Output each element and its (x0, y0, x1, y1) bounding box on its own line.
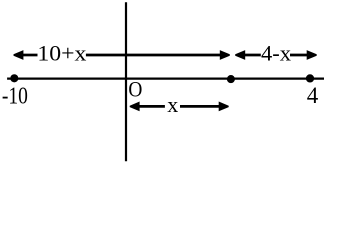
arrow 10+x left shaft (22, 54, 38, 57)
svg-text:x: x (167, 92, 178, 117)
arrow 4-x right shaft (290, 54, 308, 57)
arrow x left arrowhead (130, 102, 140, 112)
arrow x right arrowhead (219, 102, 229, 112)
arrow 4-x left shaft (244, 54, 261, 57)
svg-text:4: 4 (307, 83, 319, 108)
svg-text:4-x: 4-x (261, 41, 291, 66)
vertical axis (125, 2, 127, 161)
arrow 10+x right arrowhead (220, 50, 230, 60)
arrow 4-x left arrowhead (235, 50, 245, 60)
svg-text:O: O (128, 76, 142, 101)
point dot at 4 (306, 74, 314, 82)
point dot between O and 4 (227, 75, 235, 83)
svg-text:-10: -10 (2, 83, 28, 109)
number line (7, 77, 324, 79)
svg-text:10+x: 10+x (37, 41, 86, 66)
point dot at -10 (10, 74, 18, 82)
arrow 10+x left arrowhead (14, 50, 24, 60)
arrow x left shaft (138, 105, 165, 108)
arrow x right shaft (180, 105, 220, 108)
arrow 10+x right shaft (86, 54, 221, 57)
arrow 4-x right arrowhead (307, 50, 317, 60)
